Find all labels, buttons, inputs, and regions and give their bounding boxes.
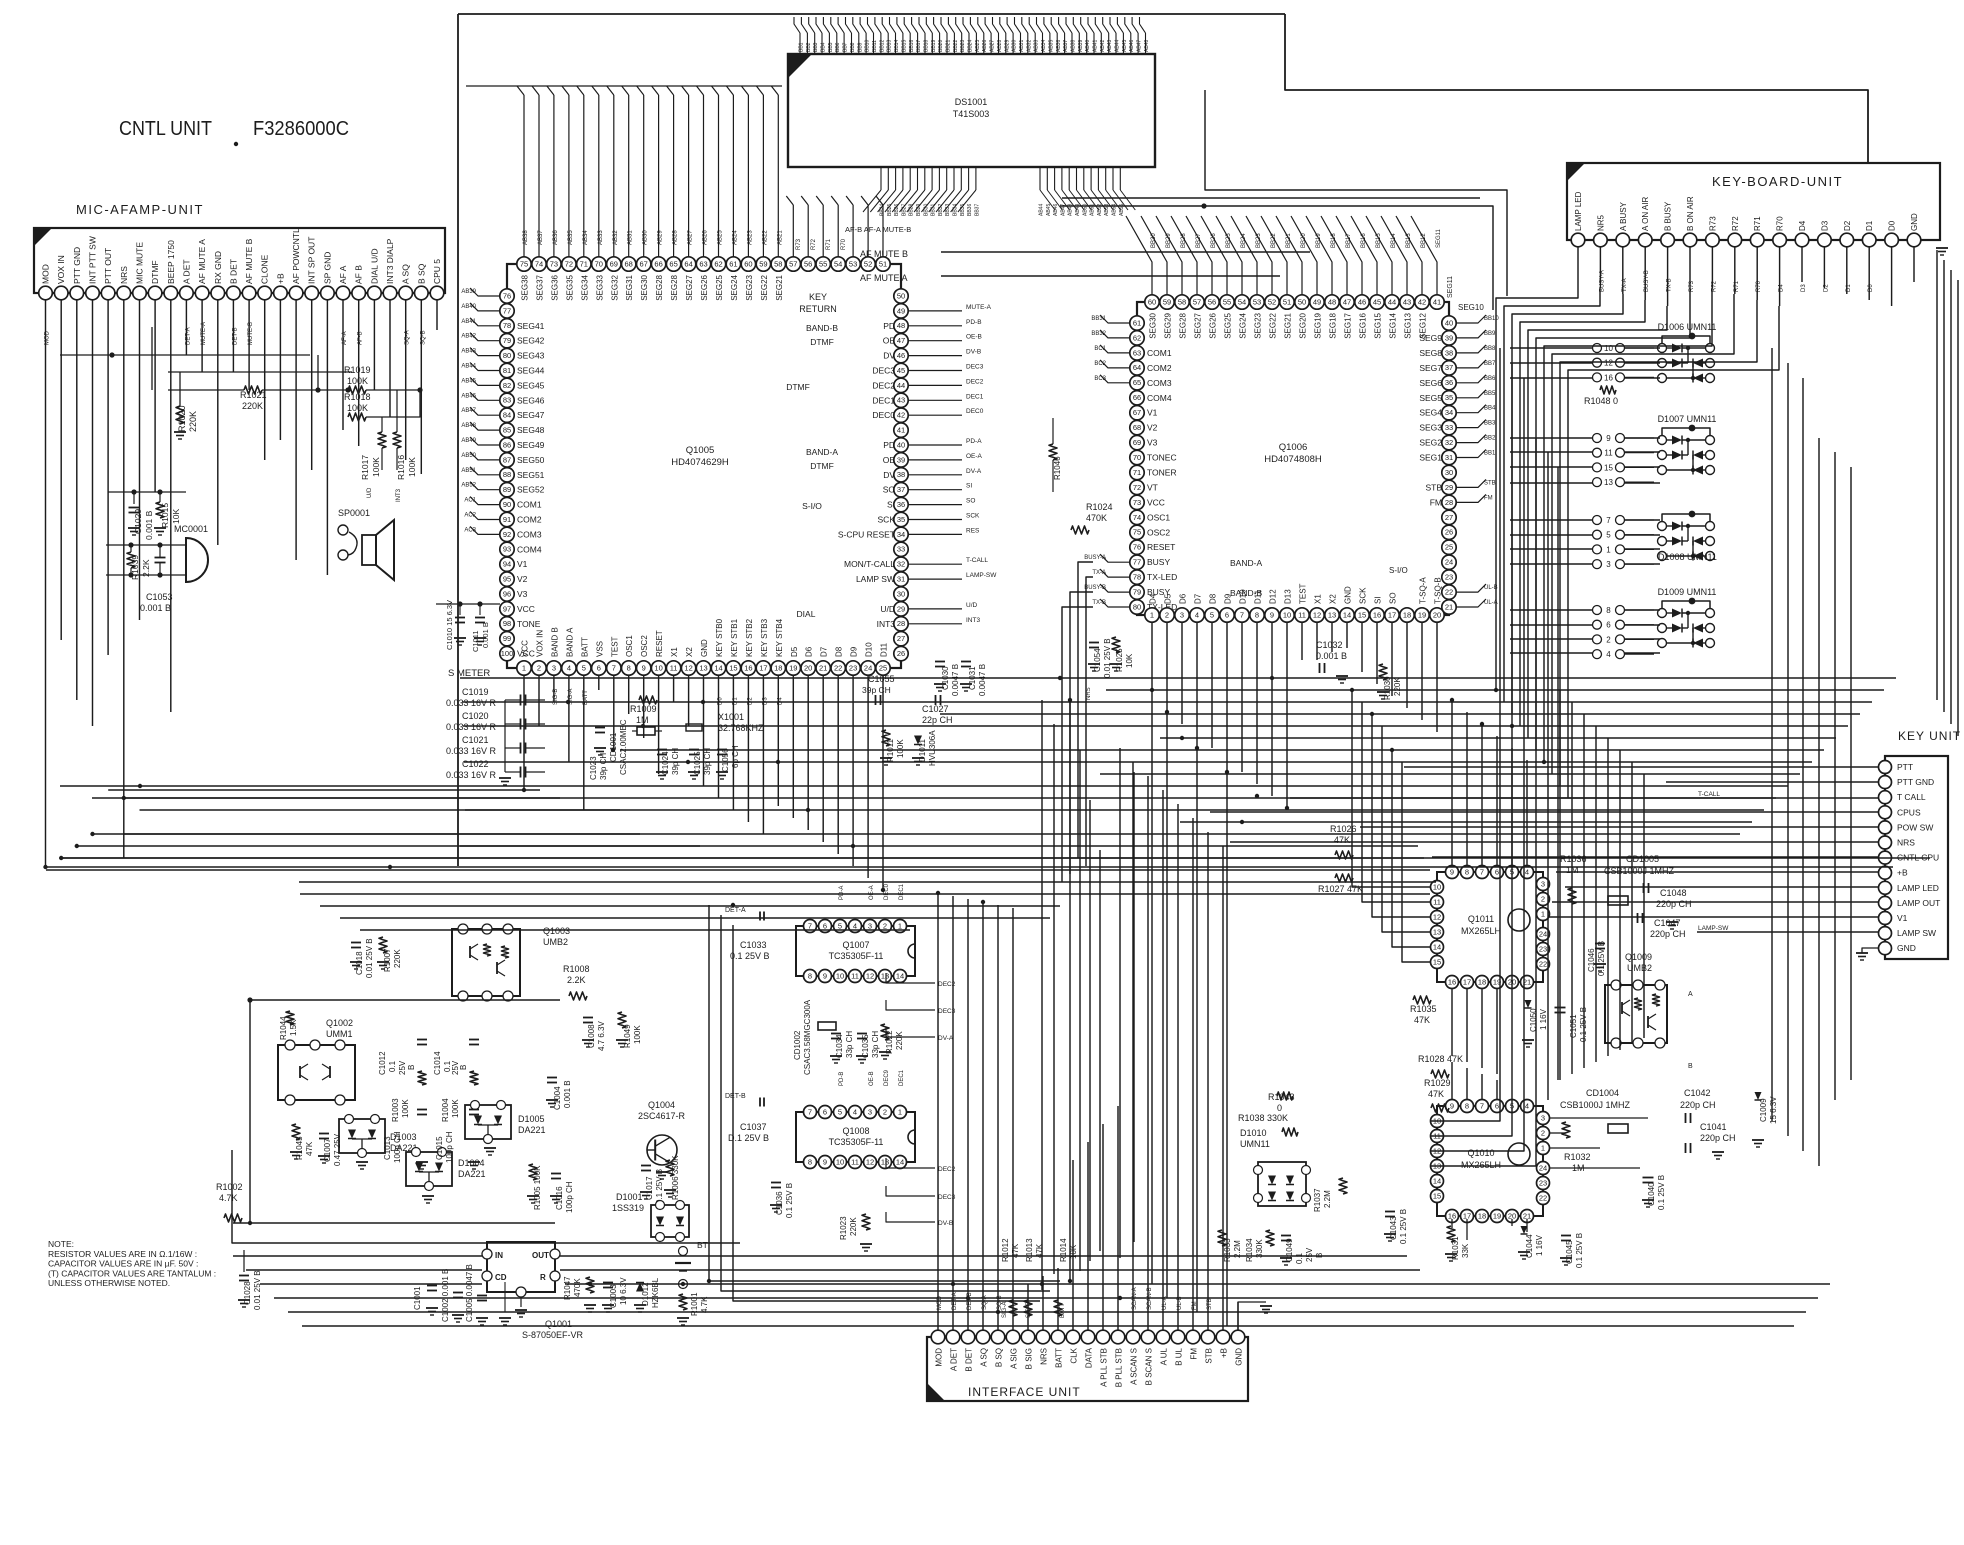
svg-text:BB3: BB3 [1484, 421, 1496, 427]
svg-text:1SS319: 1SS319 [612, 1203, 644, 1213]
svg-text:AB35: AB35 [568, 230, 574, 245]
svg-text:6: 6 [823, 1107, 827, 1116]
svg-text:73: 73 [550, 259, 558, 268]
svg-text:70: 70 [1133, 453, 1141, 462]
svg-text:11: 11 [851, 1157, 859, 1166]
svg-text:AB27: AB27 [990, 40, 996, 52]
svg-text:100K: 100K [347, 403, 368, 413]
svg-text:26: 26 [1445, 528, 1453, 537]
svg-text:9: 9 [1450, 1101, 1454, 1110]
svg-text:KEY STB4: KEY STB4 [775, 618, 784, 657]
svg-text:10: 10 [836, 971, 844, 980]
svg-text:18: 18 [1478, 1211, 1486, 1220]
svg-text:DATA: DATA [1085, 1347, 1094, 1368]
svg-text:PD-B: PD-B [839, 1072, 845, 1086]
svg-text:63: 63 [699, 259, 707, 268]
svg-text:2: 2 [1165, 610, 1169, 619]
svg-text:D1001: D1001 [616, 1192, 643, 1202]
svg-text:2: 2 [883, 921, 887, 930]
svg-text:AB43: AB43 [1107, 40, 1113, 52]
svg-text:BB36: BB36 [967, 204, 973, 216]
svg-text:SEG16: SEG16 [1359, 312, 1368, 338]
svg-text:61: 61 [1133, 318, 1141, 327]
svg-text:C1056: C1056 [721, 748, 730, 772]
svg-text:58: 58 [1178, 297, 1186, 306]
svg-text:BB12: BB12 [879, 40, 885, 52]
svg-text:AB42: AB42 [461, 334, 476, 340]
svg-text:11: 11 [670, 663, 678, 672]
svg-text:BB6: BB6 [835, 42, 841, 52]
svg-text:13: 13 [881, 1157, 889, 1166]
svg-text:BB18: BB18 [924, 40, 930, 52]
svg-text:D1004: D1004 [458, 1158, 485, 1168]
svg-text:BB37: BB37 [974, 204, 980, 216]
svg-text:6p CH: 6p CH [731, 745, 740, 768]
svg-text:4: 4 [1525, 1101, 1529, 1110]
svg-text:39p CH: 39p CH [862, 685, 891, 695]
svg-text:A UL: A UL [1160, 1347, 1169, 1365]
svg-text:AB33: AB33 [1034, 40, 1040, 52]
svg-text:D8: D8 [1209, 593, 1218, 604]
svg-text:1.5K: 1.5K [289, 1019, 298, 1036]
svg-text:2: 2 [1541, 1128, 1545, 1137]
svg-text:7: 7 [1240, 610, 1244, 619]
svg-text:BB32: BB32 [1091, 331, 1106, 337]
svg-text:AB26: AB26 [982, 40, 988, 52]
svg-text:SEG21: SEG21 [1284, 312, 1293, 338]
svg-text:AB36: AB36 [553, 230, 559, 245]
svg-text:C1002 0.001 B: C1002 0.001 B [441, 1269, 450, 1322]
svg-text:COM4: COM4 [517, 544, 542, 554]
svg-text:KEY: KEY [809, 292, 827, 302]
svg-text:40: 40 [1445, 318, 1453, 327]
svg-text:AB48: AB48 [1144, 40, 1150, 52]
svg-text:D1010: D1010 [1240, 1128, 1267, 1138]
svg-text:R1032: R1032 [1564, 1152, 1591, 1162]
svg-text:6: 6 [1225, 610, 1229, 619]
svg-text:C1012: C1012 [378, 1051, 387, 1075]
svg-text:COM2: COM2 [1147, 363, 1172, 373]
svg-text:+B: +B [275, 273, 285, 284]
svg-text:R1013: R1013 [1025, 1238, 1034, 1262]
svg-text:AB47: AB47 [461, 408, 476, 414]
svg-text:SEG34: SEG34 [580, 274, 589, 300]
svg-text:NRS: NRS [1897, 838, 1915, 848]
svg-text:AF-A: AF-A [342, 331, 348, 345]
svg-text:B: B [1688, 1063, 1693, 1070]
svg-text:21: 21 [819, 663, 827, 672]
svg-text:10: 10 [1433, 882, 1441, 891]
svg-text:C1032: C1032 [1316, 640, 1343, 650]
svg-text:DV: DV [883, 470, 895, 480]
svg-text:D9: D9 [850, 646, 859, 657]
svg-text:R1028 47K: R1028 47K [1418, 1054, 1463, 1064]
svg-text:19: 19 [789, 663, 797, 672]
svg-text:2.2K: 2.2K [567, 975, 586, 985]
svg-text:DET-A: DET-A [725, 907, 746, 914]
svg-text:TC35305F-11: TC35305F-11 [829, 1137, 884, 1147]
svg-text:T CALL: T CALL [1897, 792, 1926, 802]
svg-text:B SQ: B SQ [995, 1348, 1004, 1367]
svg-text:Q1001: Q1001 [545, 1319, 572, 1329]
svg-text:25V: 25V [398, 1060, 407, 1075]
svg-text:7: 7 [612, 663, 616, 672]
svg-text:U/D: U/D [966, 602, 978, 609]
svg-text:BAND B: BAND B [550, 627, 559, 657]
svg-text:BB2: BB2 [1484, 436, 1496, 442]
svg-text:AB29: AB29 [1004, 40, 1010, 52]
svg-text:25: 25 [1445, 543, 1453, 552]
svg-text:CD1004: CD1004 [1586, 1088, 1619, 1098]
svg-text:9: 9 [1606, 434, 1611, 443]
svg-text:72: 72 [1133, 483, 1141, 492]
svg-text:SEG10: SEG10 [1458, 303, 1484, 312]
svg-text:SEG41: SEG41 [517, 321, 545, 331]
svg-text:DTMF: DTMF [810, 461, 834, 471]
svg-text:FM: FM [1430, 497, 1442, 507]
svg-text:48: 48 [1328, 297, 1336, 306]
svg-text:220p CH: 220p CH [1700, 1133, 1736, 1143]
svg-text:59: 59 [759, 259, 767, 268]
svg-text:BUSY-A: BUSY-A [1084, 555, 1106, 561]
svg-text:AB37: AB37 [1063, 40, 1069, 52]
svg-text:79: 79 [1133, 588, 1141, 597]
svg-text:BAND A: BAND A [565, 627, 574, 657]
svg-text:D11: D11 [1254, 589, 1263, 604]
svg-text:DEC1: DEC1 [899, 883, 905, 900]
svg-text:DIAL: DIAL [797, 609, 816, 619]
svg-text:AB41: AB41 [1093, 40, 1099, 52]
svg-text:C1010 15 6.3V: C1010 15 6.3V [445, 600, 454, 650]
svg-text:CNTL UNIT: CNTL UNIT [119, 118, 212, 140]
svg-text:DV-B: DV-B [966, 349, 981, 356]
svg-text:B ON AIR: B ON AIR [1686, 196, 1695, 231]
svg-text:13: 13 [699, 663, 707, 672]
svg-text:7: 7 [1606, 516, 1611, 525]
svg-text:COM3: COM3 [517, 529, 542, 539]
svg-text:C1037: C1037 [740, 1122, 767, 1132]
svg-text:SEG6: SEG6 [1419, 378, 1442, 388]
svg-text:220p CH: 220p CH [1650, 929, 1686, 939]
svg-text:KEY-BOARD-UNIT: KEY-BOARD-UNIT [1712, 174, 1843, 189]
svg-text:BB24: BB24 [968, 40, 974, 52]
svg-text:COM1: COM1 [1147, 348, 1172, 358]
svg-text:47K: 47K [1428, 1089, 1444, 1099]
svg-text:100K: 100K [407, 457, 417, 477]
svg-text:220p CH: 220p CH [1656, 899, 1692, 909]
svg-text:27: 27 [897, 634, 905, 643]
svg-text:R1004: R1004 [441, 1098, 450, 1122]
svg-text:220p CH: 220p CH [1680, 1100, 1716, 1110]
svg-text:OSC1: OSC1 [1147, 512, 1170, 522]
svg-text:33: 33 [897, 545, 905, 554]
svg-text:23: 23 [849, 663, 857, 672]
svg-text:VCC: VCC [517, 604, 535, 614]
svg-text:C1014: C1014 [433, 1051, 442, 1075]
svg-text:6: 6 [1495, 1101, 1499, 1110]
svg-text:GND: GND [1910, 213, 1919, 231]
svg-text:17: 17 [1388, 610, 1396, 619]
svg-text:B BUSY: B BUSY [1664, 201, 1673, 231]
svg-text:SEG38: SEG38 [521, 274, 530, 300]
svg-text:2.2K: 2.2K [141, 559, 151, 577]
svg-text:13: 13 [1328, 610, 1336, 619]
svg-text:DET-B: DET-B [725, 1093, 746, 1100]
svg-text:T-SQ-A: T-SQ-A [1419, 577, 1428, 604]
svg-text:T-CALL: T-CALL [1698, 791, 1720, 798]
svg-text:D0: D0 [1888, 220, 1897, 231]
svg-text:LAMP-SW: LAMP-SW [966, 572, 997, 579]
svg-text:39p CH: 39p CH [599, 753, 608, 780]
svg-text:SEG33: SEG33 [595, 274, 604, 300]
svg-text:5: 5 [1210, 610, 1214, 619]
svg-text:SEG4: SEG4 [1419, 408, 1442, 418]
svg-text:87: 87 [503, 455, 511, 464]
svg-text:1: 1 [522, 663, 526, 672]
svg-text:33K: 33K [1461, 1243, 1470, 1258]
svg-text:AB41: AB41 [461, 319, 476, 325]
svg-text:TEST: TEST [1299, 583, 1308, 604]
svg-text:8: 8 [627, 663, 631, 672]
svg-text:SEG11: SEG11 [1436, 228, 1442, 248]
svg-text:AB28: AB28 [673, 230, 679, 245]
svg-text:C1053: C1053 [146, 592, 173, 602]
svg-text:DEC1: DEC1 [899, 1069, 905, 1086]
svg-text:DV-A: DV-A [938, 1035, 954, 1042]
svg-text:DEC1: DEC1 [966, 393, 984, 400]
svg-text:RX GND: RX GND [213, 251, 223, 284]
svg-text:59: 59 [1163, 297, 1171, 306]
svg-text:SEG28: SEG28 [1179, 312, 1188, 338]
svg-text:R73: R73 [796, 238, 802, 250]
svg-text:B DET: B DET [228, 259, 238, 284]
svg-text:BB4: BB4 [1484, 406, 1496, 412]
svg-text:AB50: AB50 [461, 453, 476, 459]
svg-text:30: 30 [1445, 468, 1453, 477]
svg-text:S-I/O: S-I/O [802, 501, 822, 511]
svg-text:AF MUTE A: AF MUTE A [197, 239, 207, 284]
svg-text:C1046: C1046 [1587, 948, 1596, 972]
svg-text:12: 12 [866, 971, 874, 980]
svg-text:R1047: R1047 [563, 1276, 572, 1300]
svg-text:100K: 100K [451, 1099, 460, 1118]
svg-text:77: 77 [1133, 558, 1141, 567]
svg-text:R1002: R1002 [216, 1182, 243, 1192]
svg-text:V3: V3 [517, 589, 528, 599]
svg-text:+B: +B [1897, 868, 1908, 878]
svg-text:5: 5 [838, 921, 842, 930]
svg-text:28: 28 [1445, 498, 1453, 507]
svg-text:HD4074629H: HD4074629H [671, 457, 729, 468]
svg-text:R71: R71 [1753, 216, 1762, 231]
svg-text:62: 62 [714, 259, 722, 268]
svg-text:BB22: BB22 [953, 40, 959, 52]
svg-text:PD-A: PD-A [966, 438, 982, 445]
svg-text:PTT GND: PTT GND [72, 247, 82, 284]
svg-text:10K: 10K [171, 509, 181, 524]
svg-text:DEC0: DEC0 [966, 408, 984, 415]
svg-text:AB37: AB37 [538, 230, 544, 245]
svg-text:FM: FM [1484, 495, 1493, 501]
svg-text:C1004: C1004 [553, 1086, 562, 1110]
svg-text:53: 53 [849, 259, 857, 268]
svg-text:0.001 B: 0.001 B [1316, 651, 1347, 661]
svg-text:PD-A: PD-A [839, 886, 845, 900]
svg-text:41: 41 [897, 426, 905, 435]
svg-text:OSC2: OSC2 [1147, 527, 1170, 537]
svg-text:SEG51: SEG51 [517, 470, 545, 480]
svg-text:AB30: AB30 [643, 230, 649, 245]
svg-text:8: 8 [1465, 867, 1469, 876]
svg-text:AF MUTE B: AF MUTE B [860, 249, 908, 259]
svg-text:50: 50 [897, 291, 905, 300]
svg-text:79: 79 [503, 336, 511, 345]
svg-text:6: 6 [1606, 621, 1611, 630]
svg-text:R1012: R1012 [1001, 1238, 1010, 1262]
svg-text:C1022: C1022 [462, 759, 489, 769]
svg-text:4: 4 [853, 921, 857, 930]
svg-text:61: 61 [729, 259, 737, 268]
svg-text:B DET: B DET [965, 1348, 974, 1372]
svg-text:TX-LED: TX-LED [1147, 572, 1177, 582]
svg-text:DA221: DA221 [518, 1125, 546, 1135]
svg-text:MOD: MOD [45, 330, 51, 345]
svg-text:D9: D9 [1224, 593, 1233, 604]
svg-text:R70: R70 [841, 238, 847, 250]
svg-text:R71: R71 [826, 238, 832, 250]
svg-text:R70: R70 [1776, 216, 1785, 231]
svg-text:DET-B: DET-B [232, 327, 238, 345]
svg-text:POW SW: POW SW [1897, 822, 1933, 832]
svg-text:AF MUTE A: AF MUTE A [860, 273, 908, 283]
svg-text:VOX IN: VOX IN [536, 630, 545, 657]
svg-text:DIAL U/D: DIAL U/D [369, 248, 379, 284]
svg-text:OE-A: OE-A [966, 453, 983, 460]
svg-text:CAPACITOR VALUES ARE IN µF: CAPACITOR VALUES ARE IN µF. 50V : [48, 1259, 198, 1269]
svg-text:D4: D4 [1798, 220, 1807, 231]
svg-text:VCC: VCC [1147, 497, 1165, 507]
svg-text:36: 36 [897, 500, 905, 509]
svg-text:100K: 100K [347, 376, 368, 386]
svg-text:LAMP LED: LAMP LED [1897, 883, 1939, 893]
svg-text:AF MUTE B: AF MUTE B [244, 238, 254, 284]
svg-text:9: 9 [823, 971, 827, 980]
svg-text:100: 100 [501, 649, 514, 658]
svg-text:26: 26 [897, 649, 905, 658]
svg-text:Q1010: Q1010 [1467, 1148, 1494, 1158]
svg-text:0.47 25V: 0.47 25V [333, 1133, 342, 1166]
svg-text:BB15: BB15 [901, 40, 907, 52]
svg-text:KEY STB1: KEY STB1 [730, 618, 739, 657]
svg-text:SEG15: SEG15 [1374, 312, 1383, 338]
svg-text:SEG46: SEG46 [517, 395, 545, 405]
svg-text:89: 89 [503, 485, 511, 494]
svg-text:0.033 16V R: 0.033 16V R [446, 746, 497, 756]
svg-text:80: 80 [1133, 602, 1141, 611]
svg-text:AB44: AB44 [1115, 40, 1121, 52]
svg-text:4.7 6.3V: 4.7 6.3V [597, 1021, 606, 1051]
svg-text:35: 35 [897, 515, 905, 524]
svg-text:CD1005: CD1005 [1626, 854, 1659, 864]
svg-text:TONEC: TONEC [1147, 453, 1177, 463]
svg-text:15: 15 [1433, 957, 1441, 966]
svg-text:68: 68 [1133, 423, 1141, 432]
svg-text:B SQ: B SQ [416, 263, 426, 284]
svg-text:BATT: BATT [580, 637, 589, 657]
svg-text:AB52: AB52 [461, 483, 476, 489]
svg-text:D7: D7 [820, 646, 829, 657]
svg-text:1 16V: 1 16V [1535, 1234, 1544, 1256]
svg-text:R1044: R1044 [279, 1016, 288, 1040]
svg-text:SEG19: SEG19 [1314, 312, 1323, 338]
svg-text:24: 24 [1445, 558, 1453, 567]
svg-text:3: 3 [868, 921, 872, 930]
svg-text:14: 14 [896, 1157, 904, 1166]
svg-text:66: 66 [1133, 393, 1141, 402]
svg-text:100K: 100K [896, 739, 905, 758]
svg-text:57: 57 [1193, 297, 1201, 306]
svg-text:BUSY-B: BUSY-B [1084, 585, 1106, 591]
svg-text:SO: SO [883, 485, 896, 495]
svg-text:MIC MUTE: MIC MUTE [135, 242, 145, 284]
svg-text:2: 2 [883, 1107, 887, 1116]
svg-text:16: 16 [744, 663, 752, 672]
svg-text:24: 24 [1539, 929, 1547, 938]
svg-text:MOD: MOD [41, 264, 51, 284]
svg-text:SQ-A: SQ-A [405, 330, 411, 345]
svg-text:BB19: BB19 [931, 40, 937, 52]
svg-text:74: 74 [1133, 513, 1141, 522]
svg-text:BAND-A: BAND-A [1230, 558, 1262, 568]
svg-text:91: 91 [503, 515, 511, 524]
svg-text:220K: 220K [188, 411, 198, 432]
svg-text:BB5: BB5 [828, 42, 834, 52]
svg-text:12: 12 [1313, 610, 1321, 619]
svg-text:2SC4617-R: 2SC4617-R [638, 1111, 686, 1121]
svg-text:AB33: AB33 [598, 230, 604, 245]
svg-text:0.1: 0.1 [388, 1060, 397, 1072]
svg-text:1 16V: 1 16V [1539, 1008, 1548, 1030]
svg-text:44: 44 [1388, 297, 1396, 306]
svg-text:AB38: AB38 [1071, 40, 1077, 52]
svg-text:BB4: BB4 [821, 42, 827, 52]
svg-text:V1: V1 [1147, 408, 1158, 418]
svg-text:SEG31: SEG31 [625, 274, 634, 300]
svg-text:BB11: BB11 [872, 40, 878, 52]
svg-text:BB8: BB8 [850, 42, 856, 52]
svg-text:D.1 25V B: D.1 25V B [728, 1133, 769, 1143]
svg-text:51: 51 [879, 259, 887, 268]
svg-text:VOX IN: VOX IN [56, 255, 66, 284]
svg-text:COM3: COM3 [1147, 378, 1172, 388]
svg-text:BB31: BB31 [1091, 316, 1106, 322]
svg-text:AB46: AB46 [1053, 204, 1059, 216]
svg-text:47K: 47K [305, 1141, 314, 1156]
svg-text:22: 22 [1539, 1193, 1547, 1202]
svg-text:LAMP LED: LAMP LED [1574, 191, 1583, 231]
svg-text:14: 14 [1343, 610, 1351, 619]
svg-text:25: 25 [879, 663, 887, 672]
svg-text:7: 7 [808, 921, 812, 930]
svg-text:BB1: BB1 [1484, 451, 1496, 457]
svg-text:SP0001: SP0001 [338, 508, 370, 518]
svg-text:SEG45: SEG45 [517, 380, 545, 390]
svg-text:BB9: BB9 [1484, 331, 1496, 337]
svg-text:AB27: AB27 [688, 230, 694, 245]
svg-text:56: 56 [1208, 297, 1216, 306]
svg-text:220K: 220K [849, 1217, 858, 1236]
svg-text:R73: R73 [1708, 216, 1717, 231]
